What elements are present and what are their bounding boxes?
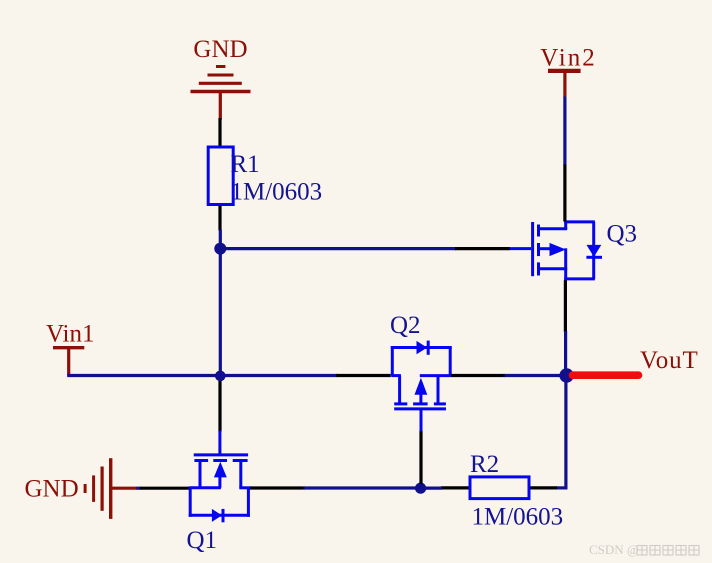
svg-text:1M/0603: 1M/0603: [231, 179, 323, 206]
svg-text:VouT: VouT: [640, 347, 699, 374]
svg-text:R1: R1: [231, 151, 260, 178]
svg-text:1M/0603: 1M/0603: [472, 504, 564, 531]
svg-text:Q2: Q2: [390, 312, 421, 339]
svg-text:Q1: Q1: [187, 527, 218, 554]
svg-text:Vin2: Vin2: [540, 45, 597, 72]
svg-text:CSDN @: CSDN @: [589, 542, 639, 557]
svg-text:R2: R2: [470, 451, 499, 478]
svg-text:GND: GND: [193, 36, 247, 63]
svg-text:GND: GND: [25, 476, 79, 503]
svg-text:Q3: Q3: [607, 221, 638, 248]
svg-text:Vin1: Vin1: [46, 321, 95, 348]
